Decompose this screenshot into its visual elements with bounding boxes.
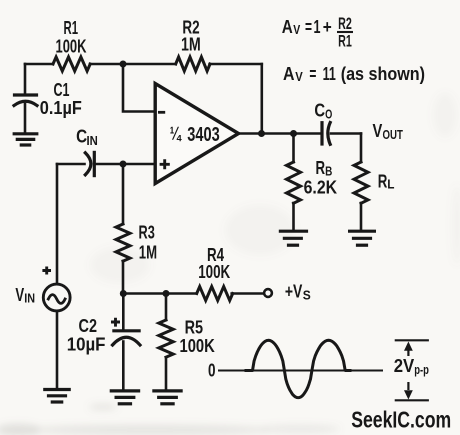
node plus-input dot	[120, 161, 127, 168]
svg-text:SeekIC.com: SeekIC.com	[351, 407, 451, 433]
ground below VIN	[45, 390, 69, 403]
resistor R5	[159, 320, 173, 357]
svg-text:C: C	[76, 126, 87, 146]
formula fraction bar	[337, 31, 353, 33]
svg-text:100K: 100K	[180, 336, 215, 356]
svg-text:R5: R5	[185, 318, 204, 338]
wire VIN top lead	[56, 164, 59, 284]
wire VIN bottom lead	[56, 311, 59, 388]
svg-text:R3: R3	[139, 223, 155, 243]
wire R1 to node A	[90, 63, 176, 66]
resistor R2	[176, 57, 210, 71]
waveform baseline	[218, 370, 383, 372]
resistor RL	[354, 162, 368, 203]
svg-text:IN: IN	[87, 134, 98, 148]
svg-text:11: 11	[323, 64, 336, 84]
wire node A down to inverting input	[123, 64, 154, 112]
wire node B down to C2	[122, 294, 125, 330]
capacitor C1	[14, 95, 37, 132]
node B dot	[120, 290, 127, 297]
ground below C2	[111, 391, 138, 404]
svg-text:V: V	[293, 22, 300, 37]
wire down to RL	[360, 134, 363, 163]
source VIN	[43, 284, 70, 311]
svg-text:1M: 1M	[139, 243, 157, 263]
svg-text:3403: 3403	[187, 124, 219, 146]
op-amp U1	[155, 84, 238, 184]
plus sign at C2	[111, 318, 120, 327]
wire RL to ground	[360, 203, 363, 230]
wire R3 to bottom node	[122, 261, 125, 294]
svg-text:6.2K: 6.2K	[304, 177, 338, 197]
resistor R1	[53, 57, 90, 71]
wire left branch down to C1	[24, 64, 27, 94]
capacitor CO	[322, 123, 330, 145]
op-amp plus sign	[160, 159, 170, 169]
svg-text:=: =	[305, 17, 312, 37]
op-amp minus sign	[158, 111, 165, 114]
svg-text:10µF: 10µF	[67, 334, 106, 354]
svg-text:C2: C2	[79, 316, 98, 336]
svg-text:V: V	[15, 285, 24, 305]
ground below C1	[14, 134, 37, 145]
svg-text:¼: ¼	[170, 124, 182, 144]
wire plus node down to R3	[122, 164, 125, 224]
terminal +VS	[264, 289, 272, 297]
svg-text:A: A	[283, 64, 295, 84]
waveform sine	[245, 340, 352, 397]
measure bottom bar	[395, 399, 429, 401]
svg-text:100K: 100K	[56, 37, 87, 57]
resistor RB	[287, 162, 301, 203]
measure top bar	[395, 339, 429, 341]
svg-text:C: C	[314, 101, 325, 121]
node output dot	[258, 130, 265, 137]
svg-text:R1: R1	[338, 33, 352, 51]
measure down arrow	[404, 382, 413, 400]
svg-text:1M: 1M	[181, 35, 201, 55]
node A dot	[120, 61, 127, 68]
svg-text:V: V	[295, 69, 303, 84]
svg-text:R1: R1	[64, 18, 79, 38]
wire bottom row	[123, 292, 197, 295]
capacitor CIN	[85, 152, 94, 175]
svg-text:L: L	[387, 178, 395, 192]
resistor R4	[197, 287, 233, 301]
svg-text:OUT: OUT	[383, 128, 404, 142]
ground below RB	[280, 231, 306, 245]
wire R4 to VS terminal	[232, 292, 264, 295]
wire RB to ground	[292, 203, 295, 230]
measure up arrow	[404, 342, 413, 357]
wire output row	[239, 132, 322, 135]
svg-text:R2: R2	[338, 15, 352, 33]
svg-text:1: 1	[314, 17, 321, 37]
svg-text:C1: C1	[54, 80, 70, 100]
svg-text:+V: +V	[285, 282, 303, 302]
wire noninverting input row	[57, 163, 85, 166]
svg-text:A: A	[282, 17, 293, 37]
svg-text:R: R	[316, 158, 326, 178]
svg-text:(as shown): (as shown)	[341, 64, 425, 84]
svg-text:2V: 2V	[394, 356, 415, 376]
wire CIN to op-amp plus input	[96, 163, 154, 166]
wire feedback vertical	[260, 64, 263, 134]
ground below R5	[154, 391, 181, 404]
svg-text:O: O	[325, 108, 332, 122]
node D dot	[290, 130, 297, 137]
resistor R3	[116, 224, 130, 261]
wire node C down to R5	[165, 294, 168, 321]
svg-text:S: S	[303, 289, 311, 303]
svg-text:+: +	[323, 17, 332, 37]
wire top row left	[25, 63, 53, 66]
wire node D down to RB	[292, 134, 295, 163]
svg-text:p-p: p-p	[414, 362, 429, 377]
ground below RL	[350, 231, 375, 245]
svg-text:0: 0	[208, 361, 216, 381]
svg-text:=: =	[309, 64, 316, 84]
svg-text:V: V	[373, 121, 383, 141]
wire R2 to feedback corner	[210, 63, 262, 66]
wire CO to VOUT corner	[331, 132, 361, 135]
capacitor C2	[113, 331, 141, 389]
svg-text:0.1µF: 0.1µF	[40, 98, 82, 118]
node C dot	[163, 290, 170, 297]
wire R5 to ground	[165, 358, 168, 390]
svg-text:IN: IN	[24, 291, 35, 305]
svg-text:R: R	[378, 171, 388, 191]
plus sign at VIN	[42, 267, 51, 275]
svg-text:100K: 100K	[198, 262, 230, 282]
